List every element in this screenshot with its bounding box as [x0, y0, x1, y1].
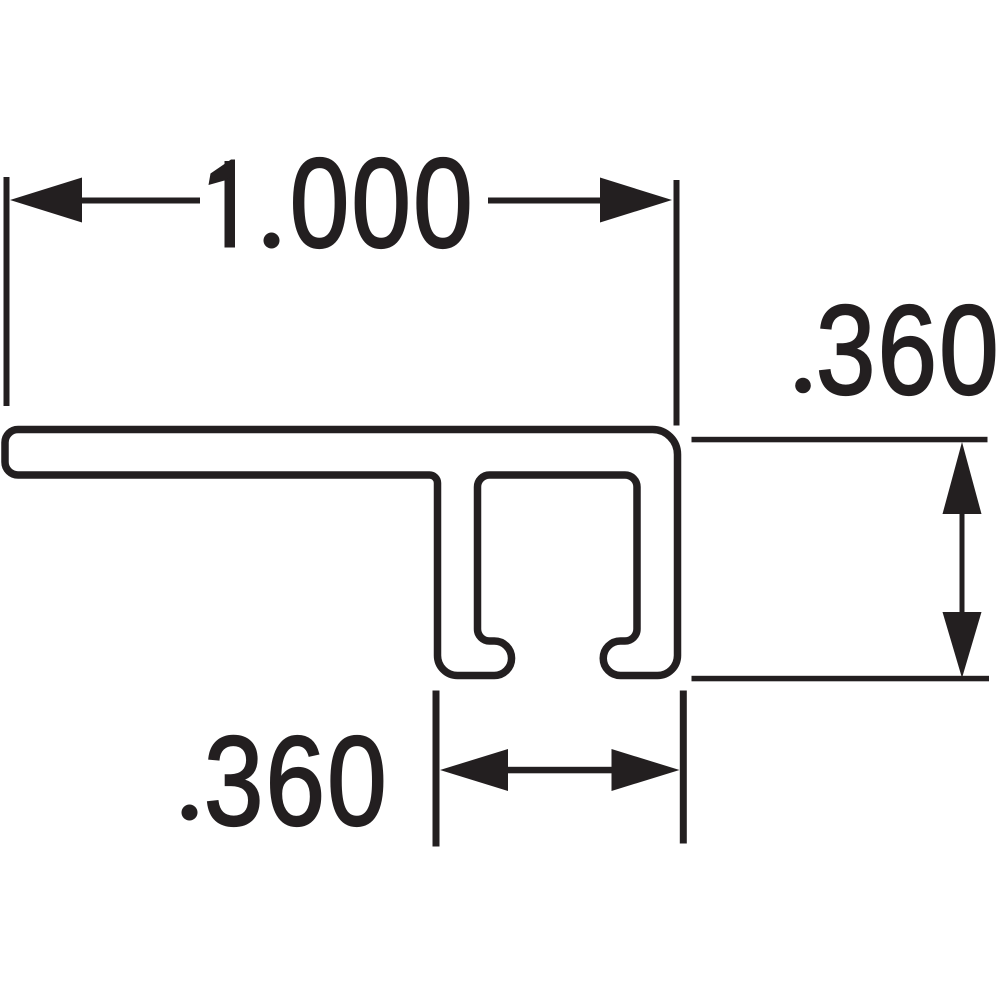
dim .360 right: down arrowhead	[943, 612, 982, 678]
dim 1.000: left arrowhead	[10, 178, 82, 223]
dim .360 bottom: right extension line	[680, 691, 687, 844]
dim .360 right: bottom line	[692, 676, 990, 682]
dim .360 bottom: left extension line	[433, 691, 440, 847]
dim .360 right: top line	[692, 437, 988, 443]
dim .360 bottom: right arrowhead	[612, 749, 680, 791]
dim 1.000: left extension line	[4, 177, 10, 406]
svg-text:.360: .360	[172, 710, 389, 852]
dim 1.000: left shaft	[80, 198, 200, 204]
svg-text:.360: .360	[784, 279, 1000, 421]
dim 1.000: right arrowhead	[600, 178, 672, 223]
dim .360 bottom: shaft	[505, 767, 615, 774]
dim .360 right: vertical shaft	[960, 510, 965, 615]
dim .360 right: label period dot	[789, 375, 809, 396]
dim 1.000: right extension line	[674, 180, 680, 426]
dim .360 bottom: left arrowhead	[440, 749, 508, 791]
dim .360 bottom: label period dot	[177, 806, 197, 827]
dim .360 right: up arrowhead	[943, 442, 982, 514]
extrusion profile outline	[5, 430, 678, 676]
dim 1.000: label period dot	[263, 228, 283, 250]
dim 1.000: label "1" redraw (cover + stem + flag)	[202, 155, 253, 250]
dim 1.000: right shaft	[488, 198, 600, 204]
